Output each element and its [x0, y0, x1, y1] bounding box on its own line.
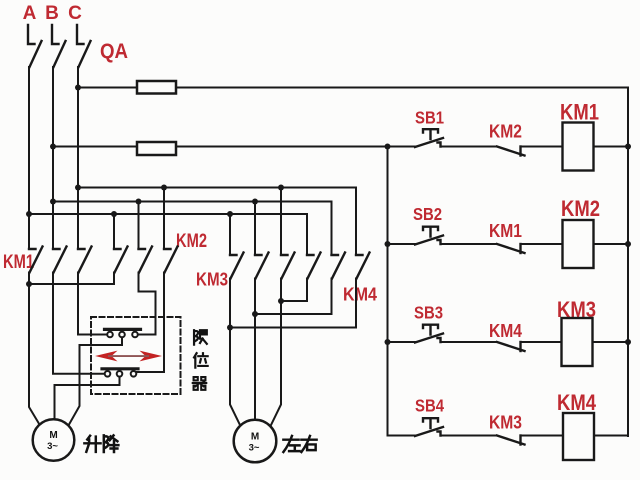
- contact KM3 aux NC: [497, 436, 525, 445]
- limit switch S2 contact c: [131, 371, 137, 377]
- limit device label 限: [194, 330, 207, 344]
- wire rung2 mid: [441, 243, 498, 245]
- svg-text:QA: QA: [100, 40, 128, 63]
- contactor KM2 main contact pole3: [164, 247, 178, 273]
- wire KM3 pole2 output to motor2 lead2: [254, 279, 256, 420]
- wire rung4 to coil: [521, 435, 564, 437]
- fuse FU2: [137, 142, 176, 155]
- wire KM2 pole3 to lower limit switch right: [137, 273, 165, 373]
- contactor KM4 main contact pole3: [356, 253, 370, 279]
- limit device label 器: [193, 377, 207, 390]
- contact KM4 aux NC: [497, 342, 525, 351]
- wire rung1 mid: [441, 146, 498, 148]
- switch QA pole B terminal: [52, 25, 59, 44]
- wire KM1 pole3 to upper limit switch left: [78, 273, 107, 335]
- svg-text:M: M: [251, 432, 259, 443]
- limit device dashed enclosure: [91, 317, 181, 394]
- node right bus rung3: [625, 339, 631, 345]
- wire control line 2 from phase B (rung 1 feed): [53, 146, 415, 148]
- travel direction arrow: [95, 351, 162, 362]
- svg-text:SB2: SB2: [413, 204, 442, 224]
- pushbutton SB3: [415, 325, 443, 343]
- wire rung4 mid: [441, 435, 498, 437]
- wire drop to KM3 pole3: [280, 188, 282, 255]
- svg-text:SB1: SB1: [415, 108, 444, 128]
- contactor KM1 main contact pole2: [53, 247, 67, 273]
- motor M2 label 右: [301, 436, 316, 452]
- wire drop to KM2 pole2: [138, 202, 140, 249]
- svg-text:KM4: KM4: [489, 321, 522, 341]
- contact KM2 aux NC: [497, 147, 525, 156]
- wire cross-link KM3p3 to KM4p1: [281, 279, 307, 302]
- limit switch S2 contact a: [105, 371, 111, 377]
- wire drop to KM3 pole2: [254, 202, 256, 255]
- node bus rung1: [385, 144, 391, 150]
- node bus rung2: [385, 241, 391, 247]
- wire phase A vertical: [28, 67, 30, 249]
- switch QA pole B blade: [54, 41, 66, 67]
- svg-text:A: A: [23, 3, 37, 24]
- contactor KM1 main contact pole1: [29, 247, 43, 273]
- node KM3p3 junction: [278, 298, 284, 304]
- svg-text:KM4: KM4: [343, 284, 378, 305]
- wire rung4 left: [388, 435, 416, 437]
- node feederA-KM2p1: [111, 211, 117, 217]
- motor M1 circle: [33, 419, 75, 461]
- wire upper limit switch output to motor1 lead3: [69, 338, 122, 425]
- svg-text:SB3: SB3: [414, 303, 443, 323]
- node KM3p2 junction: [252, 311, 258, 317]
- limit switch S2 contact b: [117, 371, 123, 377]
- wire feeder B (to KM2/KM3/KM4): [53, 202, 332, 255]
- contactor KM2 main contact pole1: [114, 247, 128, 273]
- wire rung2 coil to right bus: [594, 243, 629, 245]
- node junction B feeder: [50, 199, 56, 205]
- wire phase C vertical: [77, 67, 79, 249]
- contactor KM4 main contact pole1: [307, 253, 321, 279]
- svg-text:KM4: KM4: [557, 390, 597, 415]
- wire cross-link KM3p1 to KM4p3: [230, 279, 356, 328]
- svg-text:SB4: SB4: [415, 396, 444, 416]
- wire feeder A (to KM2/KM3/KM4): [29, 214, 307, 255]
- wire drop to KM2 pole1: [113, 214, 115, 249]
- node bus rung3: [385, 339, 391, 345]
- limit device label 位: [194, 353, 208, 367]
- wire KM2 pole2 to upper limit switch right: [138, 273, 156, 335]
- node junction B line2: [50, 144, 56, 150]
- node junction A feeder: [26, 211, 32, 217]
- node feederC-KM2p3: [161, 185, 167, 191]
- contactor KM4 main contact pole2: [332, 253, 346, 279]
- contactor KM3 main contact pole1: [230, 253, 244, 279]
- svg-text:3~: 3~: [249, 443, 260, 454]
- switch QA pole C terminal: [77, 25, 84, 44]
- svg-text:KM3: KM3: [196, 269, 228, 290]
- wire rung4 coil to right bus: [594, 435, 628, 438]
- svg-text:KM2: KM2: [561, 196, 600, 221]
- wire lower limit switch output to motor1 lead2: [55, 377, 120, 418]
- wire rung3 coil to right bus: [593, 341, 629, 343]
- wire KM1 pole1 output to motor1 lead1: [29, 273, 40, 425]
- limit switch S1 contact b: [119, 332, 125, 338]
- node feederA-KM3p1: [227, 211, 233, 217]
- motor M2 label 左: [283, 436, 299, 452]
- motor M1 label 降: [104, 435, 119, 451]
- wire KM1 pole2 to lower limit switch left: [53, 273, 105, 374]
- svg-text:M: M: [49, 430, 57, 441]
- node right bus rung1: [625, 144, 631, 150]
- switch QA pole C blade: [79, 41, 91, 67]
- wire rung3 to coil: [521, 341, 562, 343]
- svg-text:KM3: KM3: [489, 413, 522, 433]
- wire phase B vertical: [52, 67, 54, 249]
- contactor KM2 main contact pole2: [139, 247, 153, 273]
- wire rung1 to coil: [521, 146, 563, 148]
- node feederB-KM2p2: [136, 199, 142, 205]
- svg-text:B: B: [45, 3, 59, 24]
- fuse FU1: [137, 81, 176, 94]
- pushbutton SB4: [415, 418, 443, 436]
- svg-text:KM2: KM2: [489, 122, 522, 142]
- node right bus rung2: [625, 241, 631, 247]
- node junction C line1: [75, 85, 81, 91]
- limit switch S2 (lower) bridge bar: [102, 367, 138, 370]
- contactor KM1 main contact pole3: [78, 247, 92, 273]
- wire KM3 pole1 output to motor2 lead1: [230, 279, 241, 427]
- coil KM2: [563, 220, 594, 268]
- wire drop to KM2 pole3: [163, 188, 165, 249]
- coil KM1: [563, 123, 594, 171]
- limit switch S1 contact a: [107, 332, 113, 338]
- wire rung2 to coil: [521, 243, 563, 245]
- wire KM3 pole3 output to motor2 lead3: [271, 279, 282, 427]
- wire drop to KM3 pole1: [229, 214, 231, 255]
- coil KM4: [563, 413, 594, 460]
- wire control bus left vertical: [387, 147, 389, 436]
- node feederC-KM3p3: [278, 185, 284, 191]
- contact KM1 aux NC: [497, 244, 525, 253]
- wire cross-link KM1p1 to KM2p1: [29, 273, 114, 285]
- node KM3p1 junction: [227, 325, 233, 331]
- wire feeder C (to KM2/KM3/KM4): [78, 188, 356, 255]
- coil KM3: [562, 318, 593, 366]
- motor M2 circle: [234, 420, 277, 463]
- wire control line 1 from phase C: [78, 87, 628, 89]
- svg-text:KM1: KM1: [489, 221, 522, 241]
- svg-text:C: C: [68, 3, 82, 24]
- pushbutton SB2: [415, 227, 443, 245]
- wire cross-link KM3p2 to KM4p2: [255, 279, 332, 315]
- switch QA pole A terminal: [28, 25, 35, 44]
- svg-text:KM1: KM1: [560, 100, 599, 125]
- wire rung2 left: [388, 243, 416, 245]
- limit switch S1 contact c: [132, 332, 138, 338]
- svg-text:3~: 3~: [47, 441, 58, 452]
- contactor KM3 main contact pole3: [281, 253, 295, 279]
- node KM1p1 junction: [26, 281, 32, 287]
- switch QA pole A blade: [30, 41, 42, 67]
- contactor KM3 main contact pole2: [255, 253, 269, 279]
- wire rung3 mid: [441, 341, 498, 343]
- motor M1 label 升: [84, 436, 100, 452]
- wire control bus right vertical: [627, 88, 629, 437]
- node junction C feeder: [75, 185, 81, 191]
- limit switch S1 (upper) bridge bar: [105, 328, 141, 331]
- pushbutton SB1: [415, 129, 443, 147]
- wire rung3 left: [388, 341, 416, 343]
- node feederB-KM3p2: [252, 199, 258, 205]
- wire rung1 coil to right bus: [594, 146, 629, 148]
- svg-text:KM2: KM2: [176, 231, 207, 252]
